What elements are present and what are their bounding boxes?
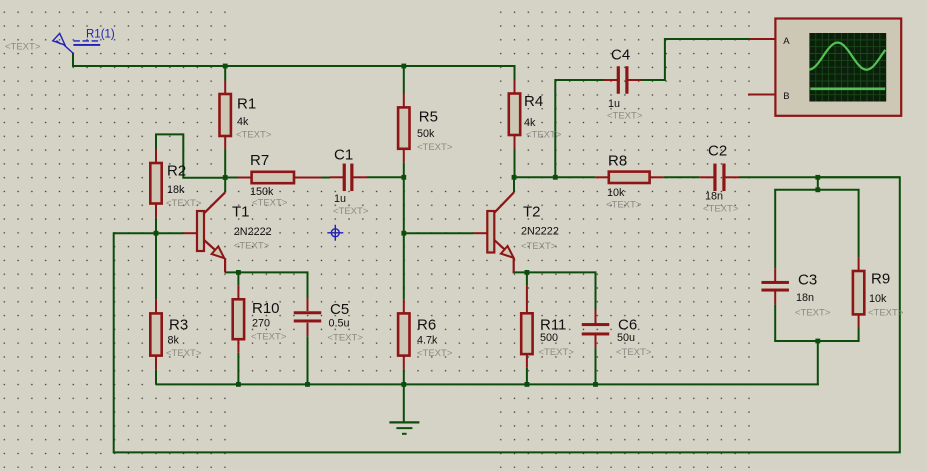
svg-text:<TEXT>: <TEXT> (417, 142, 453, 153)
svg-text:4.7k: 4.7k (417, 334, 438, 346)
svg-text:R11: R11 (540, 316, 566, 333)
svg-text:<TEXT>: <TEXT> (234, 241, 270, 252)
svg-text:R8: R8 (608, 152, 627, 169)
svg-text:<TEXT>: <TEXT> (521, 241, 557, 252)
svg-text:<TEXT>: <TEXT> (606, 199, 642, 210)
svg-text:1u: 1u (608, 98, 620, 110)
svg-text:R7: R7 (250, 152, 269, 169)
svg-text:A: A (783, 36, 790, 47)
svg-text:R5: R5 (419, 108, 438, 125)
svg-text:R9: R9 (871, 270, 890, 287)
svg-text:50u: 50u (617, 332, 635, 344)
svg-text:R10: R10 (252, 300, 280, 317)
svg-text:4k: 4k (237, 116, 249, 128)
svg-text:C6: C6 (618, 316, 637, 333)
svg-text:R2: R2 (167, 162, 186, 179)
svg-text:<TEXT>: <TEXT> (607, 110, 643, 121)
svg-text:18k: 18k (167, 184, 185, 196)
svg-text:<TEXT>: <TEXT> (166, 348, 202, 359)
svg-text:C2: C2 (708, 142, 727, 159)
svg-text:R1(1): R1(1) (86, 28, 115, 40)
svg-text:<TEXT>: <TEXT> (703, 203, 739, 214)
svg-text:2N2222: 2N2222 (234, 226, 272, 238)
svg-text:<TEXT>: <TEXT> (251, 331, 287, 342)
svg-text:<TEXT>: <TEXT> (539, 347, 575, 358)
svg-text:8k: 8k (168, 334, 180, 346)
svg-text:150k: 150k (250, 186, 274, 198)
svg-text:C5: C5 (330, 301, 349, 318)
svg-text:R3: R3 (169, 316, 188, 333)
svg-text:B: B (783, 91, 789, 102)
svg-text:R4: R4 (524, 93, 543, 110)
svg-text:R1: R1 (237, 95, 256, 112)
svg-text:2N2222: 2N2222 (521, 225, 559, 237)
svg-text:<TEXT>: <TEXT> (5, 41, 41, 52)
svg-text:<TEXT>: <TEXT> (868, 307, 904, 318)
svg-text:<TEXT>: <TEXT> (166, 198, 202, 209)
svg-text:18n: 18n (705, 190, 723, 202)
svg-text:4k: 4k (524, 117, 536, 129)
svg-text:R6: R6 (417, 316, 436, 333)
svg-text:270: 270 (252, 317, 270, 329)
svg-text:T2: T2 (523, 203, 541, 220)
svg-text:18n: 18n (796, 292, 814, 304)
svg-text:<TEXT>: <TEXT> (333, 206, 369, 217)
svg-text:0.5u: 0.5u (329, 317, 350, 329)
svg-text:C1: C1 (334, 146, 353, 163)
svg-text:50k: 50k (417, 128, 435, 140)
svg-text:<TEXT>: <TEXT> (252, 197, 288, 208)
svg-text:C4: C4 (611, 46, 630, 63)
svg-text:T1: T1 (232, 203, 250, 220)
svg-text:500: 500 (540, 332, 558, 344)
svg-text:C3: C3 (798, 271, 817, 288)
svg-text:<TEXT>: <TEXT> (236, 129, 272, 140)
svg-text:10k: 10k (869, 293, 887, 305)
svg-text:<TEXT>: <TEXT> (328, 332, 364, 343)
svg-text:<TEXT>: <TEXT> (795, 307, 831, 318)
svg-text:<TEXT>: <TEXT> (526, 129, 562, 140)
svg-text:<TEXT>: <TEXT> (616, 347, 652, 358)
svg-text:10k: 10k (607, 187, 625, 199)
svg-text:1u: 1u (334, 193, 346, 205)
svg-text:<TEXT>: <TEXT> (417, 348, 453, 359)
